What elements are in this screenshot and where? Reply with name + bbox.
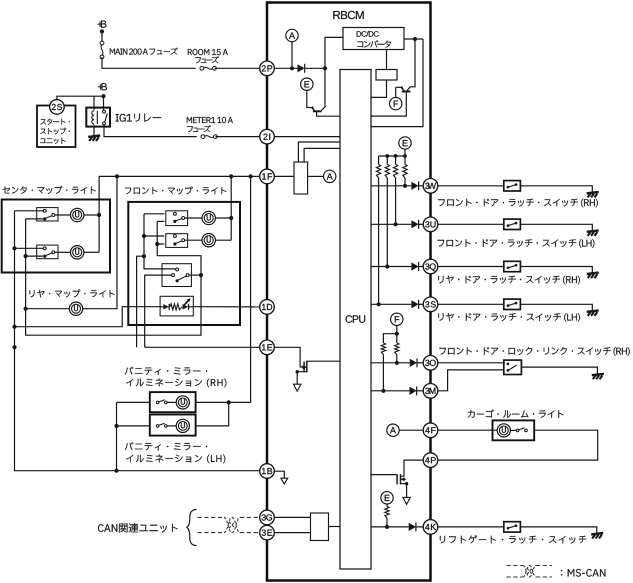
wire SW1 top to left rail [15, 210, 44, 212]
relay IG1 box [86, 108, 110, 127]
relay IG1 contact [103, 110, 106, 113]
ground (3W) [587, 192, 599, 198]
node F (lower) [391, 313, 403, 325]
wire diode to DCDC junction [305, 67, 325, 69]
wire 4P loop inside [401, 460, 423, 476]
wire rear lamp right to 1F wire [83, 176, 117, 308]
wire 3M loop [438, 370, 504, 391]
fuse METER1 10A [201, 135, 217, 139]
fuse MAIN 200A [100, 41, 104, 59]
switch latch (3S) [504, 299, 521, 309]
wire CPU to 3S [371, 303, 411, 305]
wire Q1 base to CPU [317, 111, 340, 116]
label フロント・ドア・ラッチ・スイッチ (RH) [438, 199, 598, 208]
lamp cargo [497, 424, 510, 437]
wire DC/DC output junction [404, 38, 423, 40]
diode (3S) [411, 300, 418, 309]
wire diode to 3W [419, 185, 424, 187]
ground (Q4) [403, 497, 410, 504]
connector 3Q [423, 259, 438, 274]
MOSFET Q4 gate wire [371, 474, 397, 476]
wire coil block to CPU [371, 80, 387, 97]
connector 1E [260, 340, 275, 355]
switch vanity LH [156, 425, 159, 428]
connector 3O [423, 356, 438, 371]
ground (3Q) [587, 273, 599, 279]
connector 2I [260, 129, 275, 144]
switch FSW3 [162, 264, 191, 287]
wire R4 to 3U wire [395, 178, 397, 224]
fuse ROOM 15A [200, 66, 216, 70]
rail3 branch to 1E-left segment [137, 256, 144, 347]
wire vanity LH right [196, 402, 229, 426]
diode-resistor unit box [160, 296, 193, 316]
rail3 (front tops) [144, 214, 176, 269]
node A (4F) [387, 424, 399, 436]
label front map light [125, 187, 226, 195]
wire FSW3 right contact [189, 274, 201, 276]
wire SW2 common to rail2 [26, 255, 44, 257]
connector 2S [50, 100, 65, 115]
wire SW1 common to rail2 [26, 218, 44, 220]
wire R1 to node A [308, 175, 324, 177]
wire ROOM fuse to 2P [215, 67, 260, 69]
switch vanity RH [156, 401, 159, 404]
wire F to Q2 emitter [395, 87, 397, 97]
label RBCM [333, 11, 363, 19]
wire latch switch to ground (3W) [520, 186, 592, 192]
DC/DC converter block [343, 28, 404, 50]
wire latch switch to ground (3Q) [520, 267, 592, 273]
MOSFET Q4 source [401, 477, 409, 497]
lamp front-2 [202, 234, 215, 247]
unit start-stop box [37, 106, 76, 148]
wire 1F distribution [99, 175, 260, 177]
unit center map light box [2, 200, 110, 273]
transistor Q1 emitter arrow [311, 106, 315, 111]
wire junction to DC/DC input [325, 37, 343, 68]
wire CPU to 3Q [371, 266, 411, 268]
wire SW2 top to left rail [15, 247, 44, 249]
wire 3G to CAN block [275, 516, 311, 518]
module RBCM box [267, 3, 431, 581]
connector 1D [260, 300, 275, 315]
wire 2I to CPU [274, 136, 340, 138]
wire down to center lamps [98, 176, 100, 252]
wire 3O to lock-link switch [438, 362, 505, 364]
connector 2P [260, 61, 275, 76]
wire CPU to 3M [371, 390, 410, 392]
legend twisted pair symbol [523, 566, 536, 578]
MOSFET Q3 gate bar [303, 362, 305, 373]
wire FSW1 top to rail3 [144, 213, 164, 215]
wire 1F to R1 [274, 175, 294, 177]
diode (4K) [409, 522, 416, 531]
resistor R8 [385, 507, 389, 519]
label リヤ・ドア・ラッチ・スイッチ (LH) [438, 313, 580, 322]
resistor R2 [378, 156, 380, 165]
wire 3U to latch switch [438, 223, 504, 225]
connector 3M [423, 384, 438, 399]
wire SW1 to lamp1 [55, 214, 71, 216]
legend MS-CAN dashes [507, 565, 524, 567]
wire vanity RH sw-lamp [167, 401, 176, 403]
resistor block R1 [294, 162, 308, 194]
wire vanity LH sw-lamp [167, 425, 176, 427]
connector 4K [423, 520, 438, 535]
wire diode to 3Q [419, 266, 424, 268]
node E (4K) [381, 492, 393, 504]
wire 3E to CAN block [275, 532, 311, 534]
transistor Q2 (F, collector wire) [407, 39, 415, 91]
label IG1 relay [116, 114, 161, 122]
wire 4F to cargo lamp [438, 429, 497, 431]
wire diode to 4K [416, 526, 423, 528]
MOSFET Q4 channel bar [400, 474, 402, 484]
MOSFET Q3 channel bar [306, 361, 308, 373]
wire FSW3 left contact down [145, 275, 172, 347]
battery +B (relay) [98, 83, 107, 90]
unit vanity LH box [150, 415, 196, 436]
resistor R6 [381, 343, 385, 355]
connector 3U [423, 217, 438, 232]
wire E to Q1 emitter [307, 90, 312, 107]
wire diode to 3S [419, 303, 424, 305]
wire Q2 base to CPU [371, 92, 406, 117]
wire MAIN fuse to ROOM fuse [102, 57, 196, 68]
lamp rear [69, 302, 82, 315]
wire F to junction [396, 326, 398, 334]
wire FSW1 to lamp [185, 217, 202, 219]
wire 3W to latch switch [438, 185, 504, 187]
label vanity RH [125, 367, 207, 375]
diode (3M) [410, 386, 417, 395]
rail2 (commons) [26, 219, 201, 335]
wire METER1 fuse to 2I [216, 136, 260, 138]
wire FSW2 common to rail4 [157, 243, 164, 245]
diode (3W) [411, 181, 418, 190]
wire 1E to Q3 gate [274, 347, 303, 367]
resistor R4 [395, 156, 397, 165]
node F (top) [390, 97, 402, 109]
wire diode to 3U [419, 223, 424, 225]
MS-CAN wire to 3E [198, 532, 225, 534]
switch SW1 (center) [37, 208, 58, 221]
wire vanity RH left [117, 401, 150, 403]
wire 4K to latch switch [438, 526, 504, 528]
wire 3S to latch switch [438, 303, 504, 305]
lamp vanity RH [176, 396, 189, 409]
label リフトゲート・ラッチ・スイッチ [440, 535, 586, 543]
wire A to 2P wire [291, 42, 293, 69]
diode (3O) [410, 358, 417, 367]
unit front map light box [128, 202, 240, 325]
rail4 (front commons) [157, 221, 201, 275]
connector 3G [260, 510, 275, 525]
label MAIN 200 A fuse [110, 48, 178, 55]
wire vanity feed rail [229, 176, 251, 402]
diode (3U) [411, 220, 418, 229]
lamp front-1 [202, 211, 215, 224]
resistor R3 [386, 156, 388, 165]
label CAN related unit [98, 523, 178, 532]
battery +B (top) [98, 21, 107, 28]
diode-resistor unit symbol [160, 306, 163, 308]
ground (Q3) [294, 384, 301, 391]
switch FSW1 [166, 211, 188, 226]
left rail (switch tops to 1B) [15, 211, 260, 471]
label METER1 10 A fuse [187, 117, 233, 123]
wire E to R8 [386, 504, 388, 507]
lamp center-1 [71, 208, 84, 221]
ground (1B) [281, 478, 288, 484]
wire CPU to 4K [371, 526, 409, 528]
switch latch (3Q) [504, 261, 521, 271]
wire lamp2 to junction [84, 251, 99, 253]
twisted pair symbol [224, 517, 240, 532]
label リヤ・ドア・ラッチ・スイッチ (RH) [438, 276, 580, 285]
label ROOM 15 A fuse [188, 49, 228, 55]
wire 3Q to latch switch [438, 266, 504, 268]
transistor Q2 plate [402, 91, 411, 93]
resistor R7 [396, 334, 398, 343]
wire E to bus [404, 149, 406, 156]
wire 2S to +B node [57, 96, 104, 100]
wire +B to MAIN fuse [101, 32, 103, 44]
wire DC/DC to coil block [386, 50, 388, 70]
diode D1 (2P feed) [298, 64, 305, 73]
wire CPU to 3U [371, 223, 411, 225]
wire 1E [145, 346, 260, 348]
switch latch (4K) [504, 522, 521, 532]
wire vanity LH left [117, 425, 150, 427]
wire diode to 3O [417, 362, 423, 364]
wire junction down to CPU (right) [371, 39, 423, 127]
wire lamp1 to junction [84, 214, 99, 216]
wire cargo sw-lamp [510, 429, 516, 431]
node A (2P feed) [286, 29, 298, 41]
node E (top-left) [301, 78, 313, 90]
wire FSW1 common to rail4 [157, 220, 164, 222]
CPU block [340, 70, 371, 570]
label start-stop unit [40, 119, 70, 125]
wire R1 top pin1 to CPU [298, 142, 340, 162]
wire +B to relay coil [93, 96, 95, 110]
switch SW2 (center) [37, 245, 58, 259]
wire junction to R6 [383, 334, 396, 343]
wire lamp f2 to rail [215, 239, 231, 241]
wire R3 to 3Q wire [386, 178, 388, 267]
wire R5 to 3W wire [404, 178, 406, 186]
MS-CAN wire to 3G [198, 516, 225, 518]
wire diode unit left to rail [15, 307, 161, 327]
legend label MS-CAN [561, 569, 605, 577]
wire FSW2 to lamp [185, 239, 202, 241]
wire A to 4F [399, 429, 423, 431]
wire lock-link to ground [521, 367, 597, 374]
CAN transceiver block [311, 513, 329, 541]
wire 1B to ground [274, 471, 284, 478]
connector 4P [423, 453, 438, 468]
connector 3E [260, 525, 275, 540]
wire 1D to diode unit [193, 306, 259, 308]
connector 1F [260, 169, 275, 184]
lamp center-2 [71, 246, 84, 259]
bracket CAN unit [187, 510, 197, 546]
wire CPU to 3W [371, 185, 411, 187]
resistor R5 [404, 156, 406, 165]
transistor Q1 plate [313, 110, 322, 112]
rail front lamps to 1F wire [230, 176, 232, 240]
wire +B to relay contact [103, 96, 105, 111]
wire R6 to 3M wire [382, 355, 384, 391]
ground (3U) [587, 230, 599, 236]
label front door lock-link switch [439, 347, 630, 356]
label center map light [3, 186, 96, 194]
MOSFET Q3 source [296, 365, 307, 384]
connector 4F [423, 423, 438, 438]
wire CPU to 3O [371, 362, 410, 364]
wire R7 to 3O wire [396, 355, 398, 363]
wire relay coil to ground [93, 125, 95, 136]
MOSFET Q4 gate bar [396, 474, 398, 484]
wire latch switch to ground (3S) [520, 304, 592, 310]
relay coil block (DC/DC) [376, 70, 397, 81]
connector 3S [423, 297, 438, 312]
MOSFET Q3 drain to CPU [307, 360, 340, 362]
wire latch switch to ground (3U) [520, 224, 592, 230]
ground (3S) [587, 310, 599, 316]
label vanity LH [125, 442, 207, 450]
resistor bank bus [379, 155, 406, 157]
wire vanity left rail [116, 402, 118, 470]
node E (bank) [399, 137, 411, 149]
wire 2P to diode [274, 67, 297, 69]
wire SW2 to lamp2 [55, 251, 71, 253]
wire rear lamp left [26, 308, 70, 310]
ground (relay coil) [88, 136, 100, 142]
label rear map light [30, 290, 115, 298]
label フロント・ドア・ラッチ・スイッチ (LH) [438, 239, 595, 248]
wire vanity RH right [196, 401, 229, 403]
wire relay to METER1 fuse [104, 125, 197, 137]
wire CAN block to CPU [329, 526, 341, 528]
wire FSW2 top to rail3 [144, 235, 164, 237]
switch latch (3W) [504, 181, 521, 191]
unit vanity RH box [150, 392, 196, 412]
connector 3W [423, 179, 438, 194]
wire cargo loop [438, 430, 598, 460]
node A (1F) [324, 170, 336, 182]
wire R8 to 4K wire [386, 518, 388, 527]
wire lamp f1 to rail [215, 217, 231, 219]
wire R2 to 3S wire [378, 178, 380, 304]
wire R1 top pin2 to CPU [304, 148, 340, 162]
transistor Q1 collector [321, 68, 325, 110]
switch lock-link box [504, 360, 522, 374]
lamp vanity LH [176, 419, 189, 432]
ground (4K) [591, 533, 603, 539]
wire latch switch to ground (4K) [520, 527, 596, 533]
diode (3Q) [411, 262, 418, 271]
switch cargo [516, 429, 519, 432]
wire diode to 3M [417, 390, 424, 392]
switch FSW2 [166, 234, 188, 248]
connector 1B [260, 464, 275, 479]
relay IG1 coil [92, 111, 94, 124]
unit cargo light box [493, 420, 535, 440]
ground (lock-link) [592, 374, 604, 380]
label cargo room light [468, 410, 564, 418]
switch latch (3U) [504, 219, 521, 229]
transistor Q2 emitter [396, 86, 405, 91]
